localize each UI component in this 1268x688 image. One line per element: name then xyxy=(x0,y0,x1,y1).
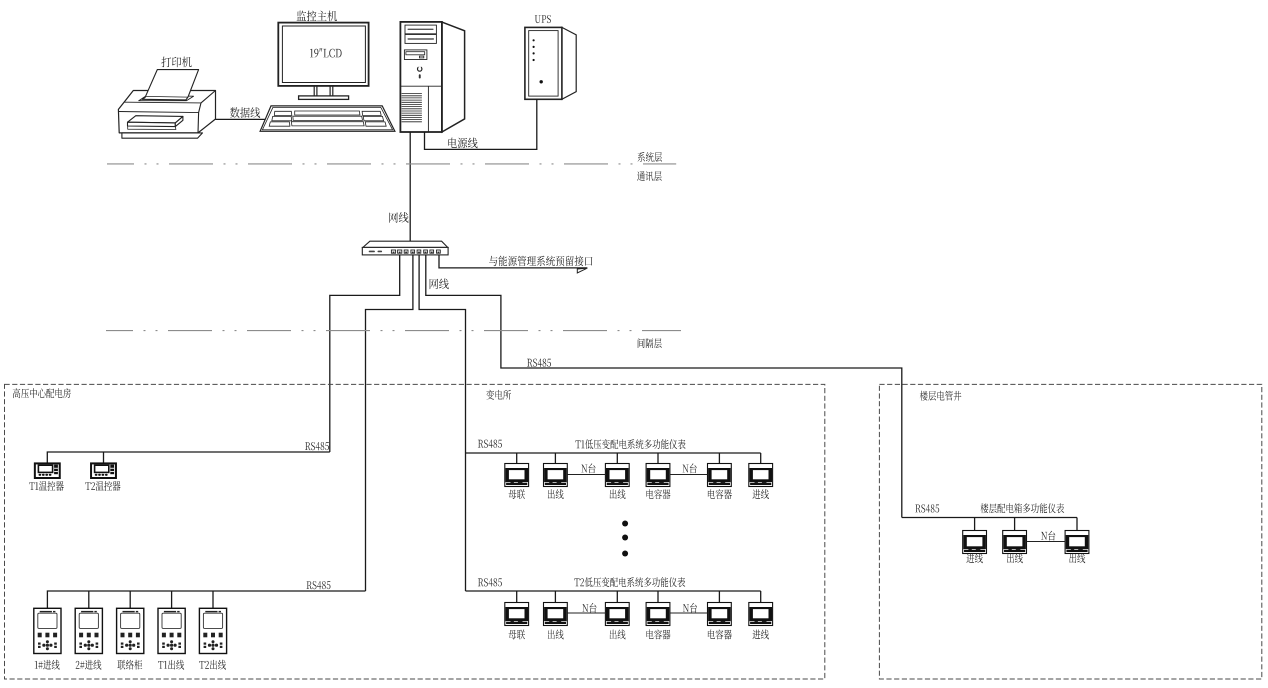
arrowhead xyxy=(577,268,587,273)
computer tower xyxy=(400,22,464,132)
label T1出线 xyxy=(158,660,184,670)
label 联络柜 xyxy=(117,660,142,670)
meter 出线 floor xyxy=(1065,531,1089,554)
wire drop relay xyxy=(129,591,131,608)
wire drop relay xyxy=(88,591,90,608)
wire drop meter xyxy=(974,518,976,531)
label 数据线 xyxy=(230,107,260,118)
protection relay 1#进线 xyxy=(34,608,61,653)
N-units link T2 a xyxy=(567,612,605,614)
label 母联 xyxy=(509,489,525,499)
label 19″LCD xyxy=(310,48,342,57)
label RS485 bus B xyxy=(307,581,331,589)
label RS485 bus A xyxy=(305,442,329,450)
label 母联 xyxy=(509,630,525,640)
meter 电容器 T1 xyxy=(708,464,732,487)
N-units link T1 a xyxy=(567,474,605,476)
meter 出线 T1 xyxy=(605,464,629,487)
N-units link floor xyxy=(1027,541,1066,543)
meter 母联 T1 xyxy=(505,464,529,487)
wire drop meter xyxy=(616,453,618,464)
label 电容器 xyxy=(646,489,670,499)
protection relay T2出线 xyxy=(199,608,226,653)
wire drop relay xyxy=(171,591,173,608)
label 楼层电管井 xyxy=(920,391,962,401)
meter 出线 T1 xyxy=(544,464,568,487)
switch ports xyxy=(391,250,440,253)
RS485 bus floor meters xyxy=(902,517,1077,519)
meter 电容器 T2 xyxy=(646,603,670,626)
label T1低压变配电系统多功能仪表 xyxy=(575,439,685,449)
label T2出线 xyxy=(199,660,226,670)
label 楼层配电箱多功能仪表 xyxy=(980,503,1064,513)
RS485 bus T1 meters xyxy=(466,452,761,454)
label 进线 xyxy=(753,630,769,640)
label 电容器 xyxy=(708,630,732,640)
label 出线 xyxy=(1069,553,1085,563)
tower vent grille xyxy=(402,94,422,122)
separator bay layer xyxy=(106,330,681,332)
N-units link T2 b xyxy=(670,612,708,614)
meter 电容器 T1 xyxy=(646,464,670,487)
wire switch to RS485 bus C xyxy=(419,255,465,591)
meter 进线 T1 xyxy=(749,464,773,487)
label 电容器 xyxy=(646,630,670,640)
protection relay T1出线 xyxy=(158,608,185,653)
label 出线 xyxy=(610,630,626,640)
RS485 bus protection relays xyxy=(47,591,365,608)
label RS485 floor xyxy=(915,504,939,512)
wire switch to RS485 bus A xyxy=(330,255,400,452)
label 1#进线 xyxy=(35,660,60,670)
meter 出线 floor xyxy=(1003,531,1027,554)
protection relay 2#进线 xyxy=(75,608,102,653)
room box floor shaft xyxy=(879,384,1261,679)
temp controller T2 xyxy=(91,463,116,478)
printer xyxy=(118,70,215,139)
label RS485 T1 row xyxy=(478,440,502,448)
wire drop meter xyxy=(516,453,518,464)
meter 出线 T2 xyxy=(605,603,629,626)
wire drop meter xyxy=(616,591,618,603)
RS485 bus temp controllers xyxy=(47,452,330,463)
meter 电容器 T2 xyxy=(708,603,732,626)
label 高压中心配电房 xyxy=(13,388,71,398)
label N台 xyxy=(581,463,595,473)
wire drop meter xyxy=(554,591,556,603)
label 变电所 xyxy=(486,390,511,400)
wire drop meter xyxy=(516,591,518,603)
temp controller T1 xyxy=(35,463,60,478)
room box high-voltage center + substation xyxy=(5,384,825,679)
wire power line tower-UPS xyxy=(425,99,537,149)
label 通讯层 xyxy=(637,171,662,181)
meter 出线 T2 xyxy=(544,603,568,626)
label 网线 upper xyxy=(389,212,408,223)
label 出线 xyxy=(610,489,626,499)
label 出线 xyxy=(548,630,564,640)
wire drop meter xyxy=(1014,518,1016,531)
label N台 xyxy=(1041,531,1055,541)
wire data line xyxy=(216,118,266,120)
label 出线 xyxy=(548,489,564,499)
label RS485 T2 row xyxy=(478,578,502,586)
wire tower to switch (network) xyxy=(409,132,411,241)
label 监控主机 xyxy=(297,11,337,22)
wire switch to RS485 bus D xyxy=(426,255,902,518)
wire reserved interface for energy mgmt xyxy=(439,255,587,268)
label 出线 xyxy=(1007,553,1023,563)
meter 进线 T2 xyxy=(749,603,773,626)
label N台 xyxy=(683,603,697,613)
label N台 xyxy=(683,463,697,473)
N-units link T1 b xyxy=(670,474,708,476)
protection relay 联络柜 xyxy=(117,608,144,653)
label 2#进线 xyxy=(76,660,102,670)
monitor xyxy=(278,23,368,100)
separator system layer xyxy=(107,163,676,165)
wire drop meter xyxy=(760,453,762,464)
RS485 bus T2 meters xyxy=(466,590,761,592)
meter 母联 T2 xyxy=(505,603,529,626)
label 系统层 xyxy=(638,152,663,162)
label T2温控器 xyxy=(85,481,120,491)
label T1温控器 xyxy=(29,481,63,491)
label 电源线 xyxy=(448,138,477,149)
wire drop relay xyxy=(212,591,214,608)
wire drop meter xyxy=(657,591,659,603)
label 打印机 xyxy=(161,57,191,68)
ellipsis dots xyxy=(622,521,628,557)
label 进线 xyxy=(753,489,769,499)
label 电容器 xyxy=(708,489,732,499)
wire drop T2 controller xyxy=(103,452,105,463)
wire drop meter xyxy=(657,453,659,464)
UPS unit xyxy=(525,27,576,99)
label 网线 lower xyxy=(430,279,449,290)
label 与能源管理系统预留接口 xyxy=(489,256,592,267)
label T2低压变配电系统多功能仪表 xyxy=(574,577,685,587)
wire switch to RS485 bus B xyxy=(366,255,413,591)
label 进线 xyxy=(966,553,982,563)
meter 进线 floor xyxy=(963,531,987,554)
wire drop meter xyxy=(1076,518,1078,531)
label RS485 interbay xyxy=(527,359,551,367)
wire drop meter xyxy=(718,591,720,603)
keyboard xyxy=(260,106,395,131)
wire drop meter xyxy=(554,453,556,464)
wire drop meter xyxy=(760,591,762,603)
wire drop meter xyxy=(718,453,720,464)
network switch xyxy=(362,241,448,255)
label 间隔层 xyxy=(638,338,662,348)
label N台 xyxy=(582,603,596,613)
label UPS xyxy=(535,15,551,23)
